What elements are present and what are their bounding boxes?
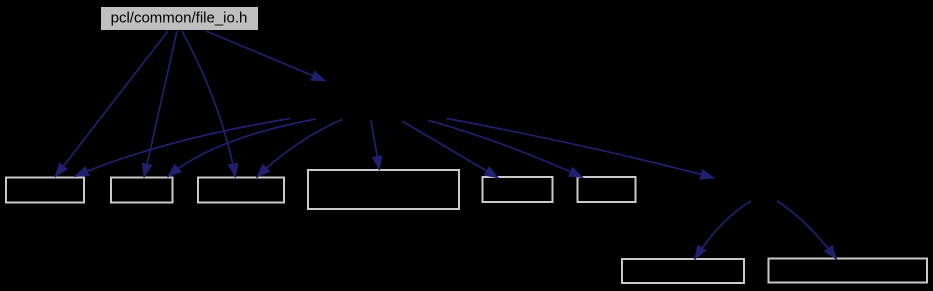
svg-text:pcl/common/file_io.h: pcl/common/file_io.h — [111, 10, 248, 27]
